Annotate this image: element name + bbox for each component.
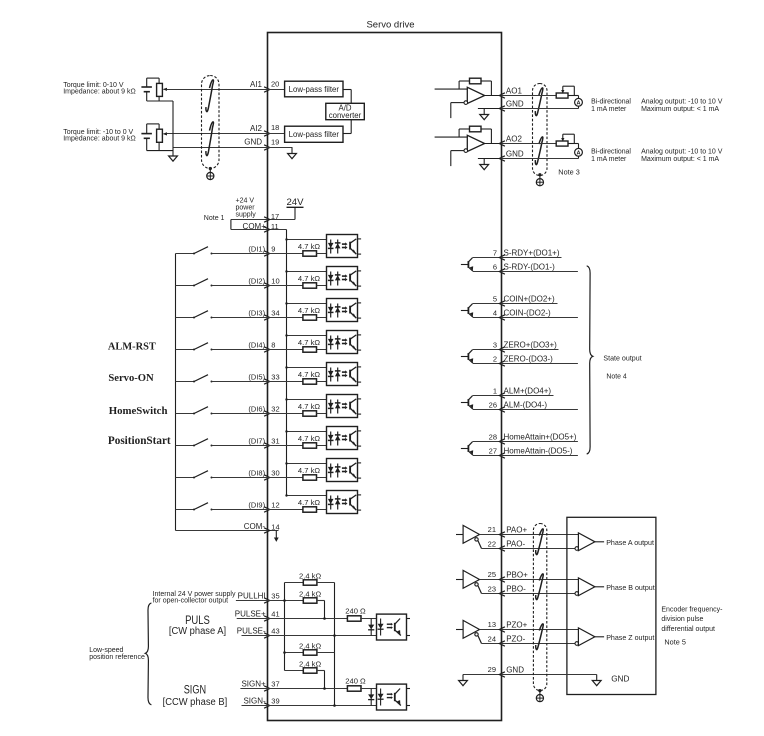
SIGN- wire internal [268,705,381,707]
svg-text:HomeSwitch: HomeSwitch [109,405,168,417]
internal common down arrow [275,531,277,538]
ground symbol left of pin 29 [462,675,464,676]
pin 35 arrow [264,598,270,603]
pin 7 arrow [499,255,505,260]
svg-text:COM+: COM+ [243,222,267,231]
pin 9 arrow [264,251,270,256]
svg-text:240 Ω: 240 Ω [345,676,366,685]
wire COIN-(DO2-) [502,317,578,319]
svg-text:Note 1: Note 1 [204,215,225,222]
pin 34 arrow [264,315,270,320]
wire DI9 internal [268,509,304,511]
svg-text:Low-pass filter: Low-pass filter [289,130,340,139]
SIGN+ wire internal [268,688,349,690]
pin 18 arrow [264,131,270,136]
line driver PAO+/PAO- [456,534,463,536]
svg-text:(DI2): (DI2) [248,277,265,286]
transistor Q3/2 open collector [461,356,468,358]
svg-text:COM-: COM- [244,522,266,531]
ammeter M1 [575,98,583,106]
svg-text:Maximum output: < 1 mA: Maximum output: < 1 mA [641,106,719,113]
cable 3 shield earth [538,689,541,692]
pin 43 arrow [264,633,270,638]
wire DI9 to opto [317,509,338,511]
switch SDI5 [176,381,195,383]
wire DI5 internal [268,381,304,383]
twisted pair PBO [536,574,544,600]
svg-text:GND: GND [611,675,629,684]
wire COIN+(DO2+) [502,303,558,305]
protection diode D2 [370,689,372,706]
optocoupler DI8 [327,459,358,482]
svg-text:14: 14 [271,523,279,532]
switch SDI6 [176,413,195,415]
wire DI6 internal [268,413,304,415]
twisted pair symbol AI1 [206,80,214,112]
svg-text:25: 25 [488,570,496,579]
svg-text:18: 18 [271,123,279,132]
wire DI2 to opto [317,285,338,287]
svg-text:Low-pass filter: Low-pass filter [289,85,340,94]
PULSE+ wire internal [268,618,349,620]
twisted pair PAO [536,529,544,555]
svg-text:4.7 kΩ: 4.7 kΩ [298,466,320,475]
svg-text:COIN+(DO2+): COIN+(DO2+) [504,295,555,304]
svg-text:23: 23 [488,584,496,593]
svg-text:12: 12 [271,500,279,509]
wire GND 29 [463,674,502,676]
pin 37 arrow [264,686,270,691]
switch SDI3 [176,317,195,319]
svg-text:AI1: AI1 [250,80,263,89]
ground symbol (analog input common) [172,150,174,156]
transistor Q28/27 open collector [461,448,468,450]
meter pot RP1 [556,93,568,98]
optocoupler DI9 [327,491,358,514]
svg-text:17: 17 [271,212,279,221]
wire ALM-(DO4-) [502,409,578,411]
twisted pair PZO [536,624,544,650]
receiver Phase B output [575,592,579,596]
receiver box [567,517,656,694]
wire AO2 out [502,143,557,145]
external switch bus [175,254,177,531]
wire PBO+ out [502,579,579,581]
pin 17 wire [231,219,295,221]
wire PAO+ out [502,534,579,536]
svg-text:PAO-: PAO- [506,540,525,549]
svg-text:2.4 kΩ: 2.4 kΩ [299,590,321,599]
wire S-RDY-(DO1-) [502,271,578,273]
resistor 2.4k R4 row [285,670,304,672]
twisted pair AO2 [535,137,543,165]
switch SDI9 [176,509,195,511]
svg-text:(DI5): (DI5) [248,373,265,382]
svg-text:Impedance: about 9 kΩ: Impedance: about 9 kΩ [63,89,136,96]
AO2 internal ground [478,158,502,160]
svg-text:supply: supply [236,212,257,219]
resistor 2.4k R2 row (PULLHI) [268,600,304,602]
svg-text:division pulse: division pulse [661,616,703,623]
svg-text:34: 34 [271,308,279,317]
resistor 4.7k DI3 [303,315,317,320]
wire AO1 gnd out [502,108,579,110]
switch SDI8 [176,477,195,479]
resistor 4.7k DI8 [303,475,317,480]
resistor 4.7k DI5 [303,379,317,384]
svg-text:4: 4 [493,309,497,318]
svg-text:6: 6 [493,263,497,272]
wire DI3 to opto [317,317,338,319]
svg-text:5: 5 [493,295,497,304]
wire DI4 to opto [317,349,338,351]
svg-text:22: 22 [488,539,496,548]
shielded cable 2 [533,84,548,176]
branch DI9 from COM+ bus [287,495,338,497]
svg-text:PULLHI: PULLHI [238,592,266,601]
protection diode D1 [370,619,372,636]
wire AO2 gnd out [502,158,579,160]
junction dots PULS [283,599,286,602]
resistor 4.7k DI4 [303,347,317,352]
svg-text:S-RDY-(DO1-): S-RDY-(DO1-) [504,263,556,272]
resistor 4.7k DI9 [303,507,317,512]
svg-text:24V: 24V [286,197,304,208]
optocoupler DI1 [327,235,358,258]
wire SIGN- external [242,705,268,707]
wire PULSE- external [242,635,268,637]
svg-text:1 mA meter: 1 mA meter [591,106,627,113]
resistor 240 ohm R5 [347,616,361,621]
svg-text:2.4 kΩ: 2.4 kΩ [299,572,321,581]
pin 14 arrow [264,528,270,533]
svg-text:State output: State output [603,355,641,363]
svg-text:PZO-: PZO- [506,635,525,644]
wire DI2 internal [268,285,304,287]
svg-text:3: 3 [493,341,497,350]
branch DI2 from COM+ bus [287,271,338,273]
svg-text:PBO-: PBO- [506,585,526,594]
cable 2 shield earth [538,173,541,176]
svg-text:(DI1): (DI1) [248,245,265,254]
torque limit source 1 (battery + potentiometer) [146,78,148,87]
svg-text:PULSE+: PULSE+ [235,610,266,619]
svg-text:27: 27 [489,447,497,456]
state output brace [587,266,593,454]
pin 31 arrow [264,443,270,448]
branch DI4 from COM+ bus [287,335,338,337]
svg-text:31: 31 [271,436,279,445]
svg-text:(DI9): (DI9) [248,501,265,510]
cable 1 shield earth [209,167,212,170]
pin 29 arrow [499,672,505,677]
optocoupler DI3 [327,299,358,322]
wire AI1 [167,89,268,91]
svg-text:PBO+: PBO+ [506,571,528,580]
pin AO2 arrow [499,141,505,146]
branch DI3 from COM+ bus [287,303,338,305]
svg-text:32: 32 [271,404,279,413]
wire DI7 to opto [317,445,338,447]
svg-text:ZERO+(DO3+): ZERO+(DO3+) [504,341,558,350]
svg-text:4.7 kΩ: 4.7 kΩ [298,338,320,347]
receiver Phase A output [575,547,579,551]
svg-text:position reference: position reference [89,654,145,661]
wire PBO- out [502,593,576,595]
pin 6 arrow [499,269,505,274]
svg-text:A: A [576,151,580,157]
svg-text:[CW phase A]: [CW phase A] [169,626,226,637]
pin 20 arrow [264,87,270,92]
svg-text:PAO+: PAO+ [506,526,527,535]
pin 41 arrow [264,616,270,621]
wire PULLHI external [236,600,268,602]
resistor 2.4k R3 row [285,652,304,654]
resistor 4.7k DI1 [303,251,317,256]
wire AO1 out [502,95,557,97]
wire DI8 internal [268,477,304,479]
wire analog GND [173,147,268,149]
svg-text:37: 37 [271,680,279,689]
branch DI1 from COM+ bus [287,239,338,241]
pin 8 arrow [264,347,270,352]
svg-text:41: 41 [271,610,279,619]
op-amp U1 [467,87,484,103]
pin AO2 GND arrow [499,156,505,161]
pin 21 arrow [499,532,505,537]
optocoupler DI5 [327,363,358,386]
pin 19 arrow [264,145,270,150]
svg-text:SIGN-: SIGN- [243,697,266,706]
svg-text:AI2: AI2 [250,124,263,133]
svg-text:COIN-(DO2-): COIN-(DO2-) [504,309,551,318]
svg-text:28: 28 [489,433,497,442]
optocoupler PULS [377,614,407,640]
svg-text:A: A [576,101,580,107]
pin 30 arrow [264,475,270,480]
switch SDI4 [176,349,195,351]
svg-text:HomeAttain+(DO5+): HomeAttain+(DO5+) [504,433,577,442]
wire HomeAttain-(DO5-) [502,455,578,457]
svg-text:GND: GND [506,665,524,674]
svg-text:2.4 kΩ: 2.4 kΩ [299,641,321,650]
optocoupler DI7 [327,427,358,450]
branch DI7 from COM+ bus [287,431,338,433]
pin 32 arrow [264,411,270,416]
wire PAO- out [502,548,576,550]
PULSE- wire internal [268,635,381,637]
meter pot RP2 [556,141,568,146]
low-pass filter 2 box [285,126,343,142]
junction dots SIGN [283,651,286,654]
AO1 internal ground [478,108,502,110]
wire AI2 internal [268,133,285,135]
svg-text:Note 5: Note 5 [664,637,686,646]
supply bracket wire [230,220,232,230]
branch DI8 from COM+ bus [287,463,338,465]
wire DI4 internal [268,349,304,351]
svg-text:Maximum output: < 1 mA: Maximum output: < 1 mA [641,156,719,163]
pin 28 arrow [499,439,505,444]
svg-text:Phase A output: Phase A output [606,539,654,547]
svg-text:10: 10 [271,276,279,285]
pin 10 arrow [264,283,270,288]
svg-text:13: 13 [488,620,496,629]
COM+ wire [231,229,287,231]
svg-text:S-RDY+(DO1+): S-RDY+(DO1+) [504,249,560,258]
svg-text:PositionStart: PositionStart [108,435,171,447]
shielded cable 3 [533,524,546,691]
svg-text:1 mA meter: 1 mA meter [591,156,627,163]
svg-text:HomeAttain-(DO5-): HomeAttain-(DO5-) [504,447,573,456]
COM- wire [176,530,279,532]
pin 11 arrow [264,227,270,232]
optocoupler DI4 [327,331,358,354]
svg-text:4.7 kΩ: 4.7 kΩ [298,498,320,507]
svg-text:Bi-directional: Bi-directional [591,98,631,105]
wire AI1 internal [268,89,285,91]
twisted pair symbol AI2/GND [206,122,214,156]
svg-text:21: 21 [488,525,496,534]
pin AO1 GND arrow [499,106,505,111]
svg-text:Impedance: about 9 kΩ: Impedance: about 9 kΩ [63,136,136,143]
svg-text:7: 7 [493,249,497,258]
wire DI5 to opto [317,381,338,383]
svg-text:11: 11 [271,222,279,231]
branch DI5 from COM+ bus [287,367,338,369]
pin 22 arrow [499,546,505,551]
wire AI2 [167,133,268,135]
svg-text:2: 2 [493,355,497,364]
wire DI1 internal [268,253,304,255]
wire to A/D 2 [343,133,351,135]
svg-text:ZERO-(DO3-): ZERO-(DO3-) [504,355,554,364]
svg-text:PULSE-: PULSE- [237,627,266,636]
svg-text:39: 39 [271,697,279,706]
svg-text:Analog output: -10 to 10 V: Analog output: -10 to 10 V [641,98,723,105]
wire DI1 to opto [317,253,338,255]
svg-text:4.7 kΩ: 4.7 kΩ [298,402,320,411]
internal analog ground pin19 [291,148,293,154]
external analog ground drop [172,101,174,150]
transistor Q1/26 open collector [461,402,468,404]
svg-text:29: 29 [488,665,496,674]
svg-text:for open-collector output: for open-collector output [153,598,229,605]
svg-text:(DI7): (DI7) [248,437,265,446]
resistor 2.4k R1 row [285,582,304,584]
ground symbol at receiver [596,675,598,681]
wire DI7 internal [268,445,304,447]
wire S-RDY+(DO1+) [502,257,562,259]
svg-text:33: 33 [271,372,279,381]
svg-text:4.7 kΩ: 4.7 kΩ [298,370,320,379]
pin 26 arrow [499,407,505,412]
svg-text:4.7 kΩ: 4.7 kΩ [298,242,320,251]
wire DI8 to opto [317,477,338,479]
svg-text:2.4 kΩ: 2.4 kΩ [299,660,321,669]
ammeter M2 [575,148,583,156]
svg-text:43: 43 [271,627,279,636]
switch SDI2 [176,285,195,287]
svg-text:8: 8 [271,340,275,349]
wire ALM+(DO4+) [502,395,554,397]
meter to gnd stub 2 [578,156,580,158]
low-speed brace [145,603,151,705]
right rail [334,583,336,706]
pin 4 arrow [499,315,505,320]
wire DI6 to opto [317,413,338,415]
svg-text:1: 1 [493,387,497,396]
svg-text:24: 24 [488,634,496,643]
svg-text:26: 26 [489,401,497,410]
svg-text:9: 9 [271,244,275,253]
svg-text:ALM-(DO4-): ALM-(DO4-) [504,401,548,410]
wire ZERO-(DO3-) [502,363,578,365]
receiver Phase Z output [575,642,579,646]
pin 39 arrow [264,703,270,708]
pin AO1 arrow [499,93,505,98]
switch SDI7 [176,445,195,447]
svg-text:PZO+: PZO+ [506,621,527,630]
svg-text:Encoder frequency-: Encoder frequency- [661,607,723,614]
line driver PZO+/PZO- [456,629,463,631]
svg-text:ALM+(DO4+): ALM+(DO4+) [504,387,552,396]
svg-text:4.7 kΩ: 4.7 kΩ [298,434,320,443]
pin 25 arrow [499,577,505,582]
torque limit source 2 (battery + potentiometer) [146,124,148,133]
wire PZO- out [502,643,576,645]
svg-text:GND: GND [244,138,262,147]
wire SIGN+ external [240,688,267,690]
pullhi rail [284,583,286,671]
switch SDI1 [176,253,195,255]
resistor 4.7k DI6 [303,411,317,416]
svg-text:ALM-RST: ALM-RST [108,342,156,353]
svg-text:[CCW phase B]: [CCW phase B] [163,697,228,708]
svg-text:Servo-ON: Servo-ON [108,373,154,384]
svg-text:SIGN: SIGN [184,685,206,697]
resistor 240 ohm R6 [347,686,361,691]
svg-text:Analog output: -10 to 10 V: Analog output: -10 to 10 V [641,148,723,155]
svg-text:GND: GND [506,99,524,108]
pin 17 arrow [264,217,270,222]
svg-text:4.7 kΩ: 4.7 kΩ [298,306,320,315]
resistor 4.7k DI7 [303,443,317,448]
pin 5 arrow [499,301,505,306]
meter to gnd stub 1 [578,106,580,108]
pin 1 arrow [499,393,505,398]
wire GND internal [268,147,293,149]
shielded cable 1 [202,76,220,169]
optocoupler DI6 [327,395,358,418]
svg-text:Bi-directional: Bi-directional [591,148,631,155]
svg-text:Note 3: Note 3 [558,167,580,176]
svg-text:power: power [236,205,256,212]
resistor 4.7k DI2 [303,283,317,288]
optocoupler DI2 [327,267,358,290]
svg-text:240 Ω: 240 Ω [345,607,366,616]
pin 27 arrow [499,453,505,458]
COM+ internal bus [286,230,288,496]
optocoupler SIGN [377,684,407,710]
pin 23 arrow [499,591,505,596]
wire ZERO+(DO3+) [502,349,559,351]
low-pass filter 1 box [285,81,343,97]
servo drive enclosure box [268,33,502,721]
wire PULSE+ external [237,618,268,620]
svg-text:Phase Z output: Phase Z output [606,634,654,642]
svg-text:Note 4: Note 4 [606,374,626,381]
